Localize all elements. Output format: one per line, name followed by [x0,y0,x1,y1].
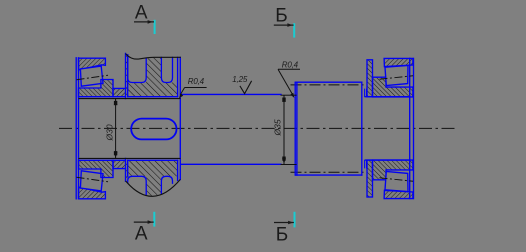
svg-text:Б: Б [275,6,287,27]
svg-text:Ø30: Ø30 [104,124,114,141]
svg-text:А: А [135,224,148,245]
svg-text:Ø35: Ø35 [272,119,282,136]
svg-text:Б: Б [276,224,288,245]
svg-text:R0,4: R0,4 [188,77,205,86]
svg-text:R0,4: R0,4 [282,60,299,69]
svg-text:1,25: 1,25 [232,75,248,84]
svg-text:А: А [135,2,148,23]
